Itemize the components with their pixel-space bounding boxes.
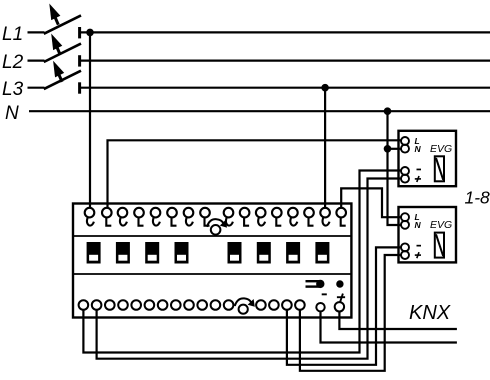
wire L1 lead [28, 31, 45, 33]
wire EVG1 minus to actuator bottom terminal 1 [83, 171, 400, 353]
junction dot L1 [86, 29, 94, 37]
switch S2 blade [44, 44, 81, 62]
channel switch 2 [116, 242, 130, 264]
EVG2 terminal N [401, 221, 409, 229]
label KNX [409, 302, 451, 324]
EVG1 terminal plus [401, 175, 409, 183]
svg-text:N: N [5, 103, 19, 124]
EVG1 box [399, 131, 457, 186]
wire L1 feed to actuator terminal 1 [89, 32, 91, 208]
EVG2 label N [415, 220, 422, 230]
actuator divider upper [73, 235, 351, 237]
svg-text:L1: L1 [2, 24, 23, 45]
junction dot N [384, 107, 392, 115]
EVG1 terminal minus [401, 167, 409, 175]
wire L2 lead [28, 59, 45, 61]
programming LED [336, 280, 343, 287]
svg-text:EVG: EVG [430, 143, 452, 155]
label L2 [2, 52, 24, 73]
channel switch 1 [87, 242, 101, 264]
svg-text:L2: L2 [2, 52, 24, 73]
EVG2 label L [415, 212, 420, 222]
EVG2 terminal plus [401, 251, 409, 259]
channel switch 8 [315, 242, 329, 264]
label L1 [2, 24, 23, 45]
channel switch 5 [228, 242, 242, 264]
switch S1 arrow [50, 4, 60, 24]
top screw [207, 219, 227, 234]
wire N [29, 110, 490, 112]
svg-text:L3: L3 [2, 79, 24, 100]
wire N feed to EVG1 N and EVG2 N [388, 111, 401, 225]
EVG1 label N [415, 144, 422, 154]
junction dot L3 [321, 84, 329, 92]
svg-text:KNX: KNX [409, 302, 451, 324]
wire L3 feed to actuator terminal 15 [324, 88, 326, 208]
wire actuator terminal 2 to EVG1 L [108, 140, 401, 208]
wire N stub into EVG1 N [388, 148, 401, 150]
label L3 [2, 79, 24, 100]
EVG1 lamp symbol [435, 156, 444, 181]
wire KNX bus minus [321, 311, 457, 343]
wire L3 [81, 87, 490, 89]
junction dot EVG1 N [384, 145, 392, 153]
svg-text:EVG: EVG [430, 219, 452, 231]
wire EVG2 minus to actuator bottom terminal 15 [287, 247, 401, 364]
EVG1 label L [415, 136, 420, 146]
EVG1 label minus [417, 169, 422, 171]
switch S3 arrow [54, 62, 64, 82]
label N [5, 103, 19, 124]
programming button [306, 280, 325, 288]
label 1-8 [465, 188, 490, 208]
bottom terminals row [79, 300, 305, 310]
switch S2 contact [78, 55, 81, 66]
EVG2 label EVG [430, 219, 452, 231]
switch S1 contact [78, 27, 81, 38]
channel switch 4 [175, 242, 189, 264]
EVG1 terminal L [401, 137, 409, 145]
wire actuator terminal 16 to EVG2 L [341, 188, 401, 217]
switch S3 blade [44, 71, 81, 89]
switch S1 blade [44, 15, 81, 33]
channel switch 6 [257, 242, 271, 264]
wire L3 lead [28, 87, 45, 89]
bus minus label [322, 293, 327, 295]
bus terminal plus [335, 302, 344, 311]
switch S2 arrow [52, 34, 62, 54]
bus terminal minus [316, 303, 324, 311]
svg-text:N: N [415, 220, 422, 230]
top terminals row [85, 208, 346, 226]
EVG2 label minus [417, 245, 422, 247]
EVG2 label plus [415, 252, 421, 258]
EVG2 box [399, 207, 457, 262]
wire KNX bus plus [339, 311, 457, 329]
EVG2 lamp symbol [435, 233, 444, 258]
bottom screw [235, 298, 255, 313]
wire L2 [81, 59, 490, 61]
EVG1 terminal N [401, 145, 409, 153]
wire EVG2 plus to actuator bottom terminal 16 [300, 255, 401, 371]
wire EVG1 plus to actuator bottom terminal 2 [97, 179, 401, 359]
EVG2 terminal L [401, 213, 409, 221]
svg-text:1-8: 1-8 [465, 188, 490, 208]
wire L1 [81, 31, 490, 33]
channel switch 3 [145, 242, 159, 264]
actuator divider lower [73, 273, 351, 275]
channel switch 7 [286, 242, 300, 264]
EVG2 terminal minus [401, 243, 409, 251]
EVG1 label EVG [430, 143, 452, 155]
svg-text:N: N [415, 144, 422, 154]
switch S3 contact [78, 82, 81, 93]
bus plus label [337, 294, 345, 303]
EVG1 label plus [415, 176, 421, 182]
actuator U1 body [73, 204, 351, 318]
